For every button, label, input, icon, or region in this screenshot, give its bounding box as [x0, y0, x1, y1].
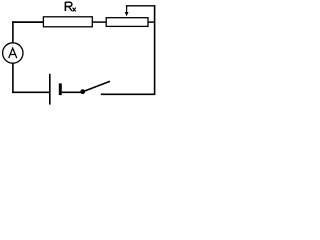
ammeter A1 — [3, 43, 23, 63]
wire battery to switch — [62, 91, 81, 93]
battery B1 short plate (-) — [59, 83, 62, 95]
wire rheostat to right vertical — [148, 21, 155, 23]
rheostat wiper shaft — [126, 6, 128, 13]
switch S1 lever (open) — [84, 81, 110, 91]
battery B1 long plate (+) — [49, 74, 51, 105]
resistor Rx body — [43, 17, 92, 27]
wire left vertical lower — [12, 63, 14, 93]
switch S1 pivot dot — [80, 89, 85, 94]
wire switch to bottom-right — [101, 93, 156, 95]
ammeter label A — [9, 48, 17, 58]
wire bottom-left horizontal — [12, 91, 49, 93]
wire right vertical — [154, 5, 156, 95]
rheostat wiper arrowhead — [125, 12, 129, 16]
wire top-left horizontal — [12, 21, 43, 23]
wire top-right horizontal — [126, 5, 155, 7]
wire left vertical upper — [12, 21, 14, 43]
wire between resistor and rheostat — [92, 21, 106, 23]
rheostat R2 body — [106, 18, 148, 27]
label Rx — [65, 2, 75, 12]
